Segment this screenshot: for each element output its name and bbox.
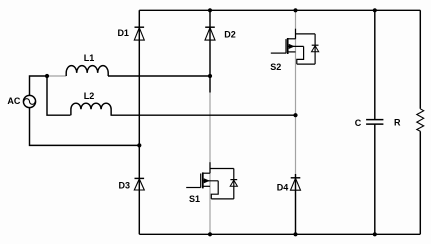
transistor S2 (MOSFET with body diode) bbox=[271, 29, 319, 64]
wire middle bridge branch upper (D2 leg) bbox=[209, 10, 211, 92]
svg-text:L1: L1 bbox=[84, 53, 95, 63]
wire L1 left lead (grey) bbox=[47, 75, 66, 77]
node junction top rail / S2 leg bbox=[293, 8, 297, 12]
node junction AC return on D1/D3 leg bbox=[137, 143, 141, 147]
svg-text:D3: D3 bbox=[119, 181, 131, 191]
wire AC bottom return lead bbox=[30, 108, 140, 146]
wire load resistor branch bbox=[419, 10, 421, 234]
node junction top rail / C leg bbox=[373, 8, 377, 12]
svg-text:S2: S2 bbox=[270, 62, 281, 72]
node junction top rail / D2 leg bbox=[208, 8, 212, 12]
svg-text:S1: S1 bbox=[189, 194, 200, 204]
node junction bottom rail / C leg bbox=[373, 232, 377, 236]
wire L2 left lead bbox=[47, 76, 71, 115]
inductor L2 bbox=[71, 103, 111, 115]
svg-text:D1: D1 bbox=[117, 28, 129, 38]
svg-text:D4: D4 bbox=[277, 183, 289, 193]
wire output capacitor branch bbox=[374, 10, 376, 234]
diode D1 bbox=[134, 27, 144, 40]
AC source AC bbox=[23, 95, 35, 107]
wire right bridge branch lower (D4 leg) bbox=[295, 174, 297, 234]
wire L1 right lead bbox=[108, 75, 210, 77]
wire L2 right lead bbox=[111, 114, 296, 116]
wire right bridge branch (S2 leg upper, grey) bbox=[295, 10, 297, 174]
svg-text:C: C bbox=[355, 118, 362, 128]
node junction L1-left / L2 tap bbox=[45, 74, 49, 78]
node junction L2-right on S2/D4 leg bbox=[293, 113, 297, 117]
capacitor C bbox=[366, 120, 383, 125]
wire top rail bbox=[139, 9, 420, 11]
svg-text:R: R bbox=[394, 117, 401, 127]
node junction L1-right on D2/S1 leg bbox=[208, 74, 212, 78]
inductor L1 bbox=[66, 66, 108, 76]
svg-text:L2: L2 bbox=[84, 91, 95, 101]
diode D2 bbox=[205, 27, 215, 40]
node junction bottom rail / S1 leg bbox=[208, 232, 212, 236]
wire middle bridge branch lower (S1 leg, grey) bbox=[209, 93, 211, 235]
svg-text:AC: AC bbox=[7, 96, 20, 106]
diode D4 bbox=[291, 178, 301, 190]
resistor R bbox=[417, 109, 424, 132]
wire bottom rail bbox=[139, 233, 420, 235]
svg-text:D2: D2 bbox=[224, 29, 236, 39]
diode D3 bbox=[134, 178, 144, 190]
wire left bridge branch (D1-D3 leg) bbox=[138, 10, 140, 234]
wire AC top lead bbox=[30, 76, 48, 95]
transistor S1 (MOSFET with body diode) bbox=[186, 162, 237, 199]
node junction bottom rail / D4 leg bbox=[293, 232, 297, 236]
